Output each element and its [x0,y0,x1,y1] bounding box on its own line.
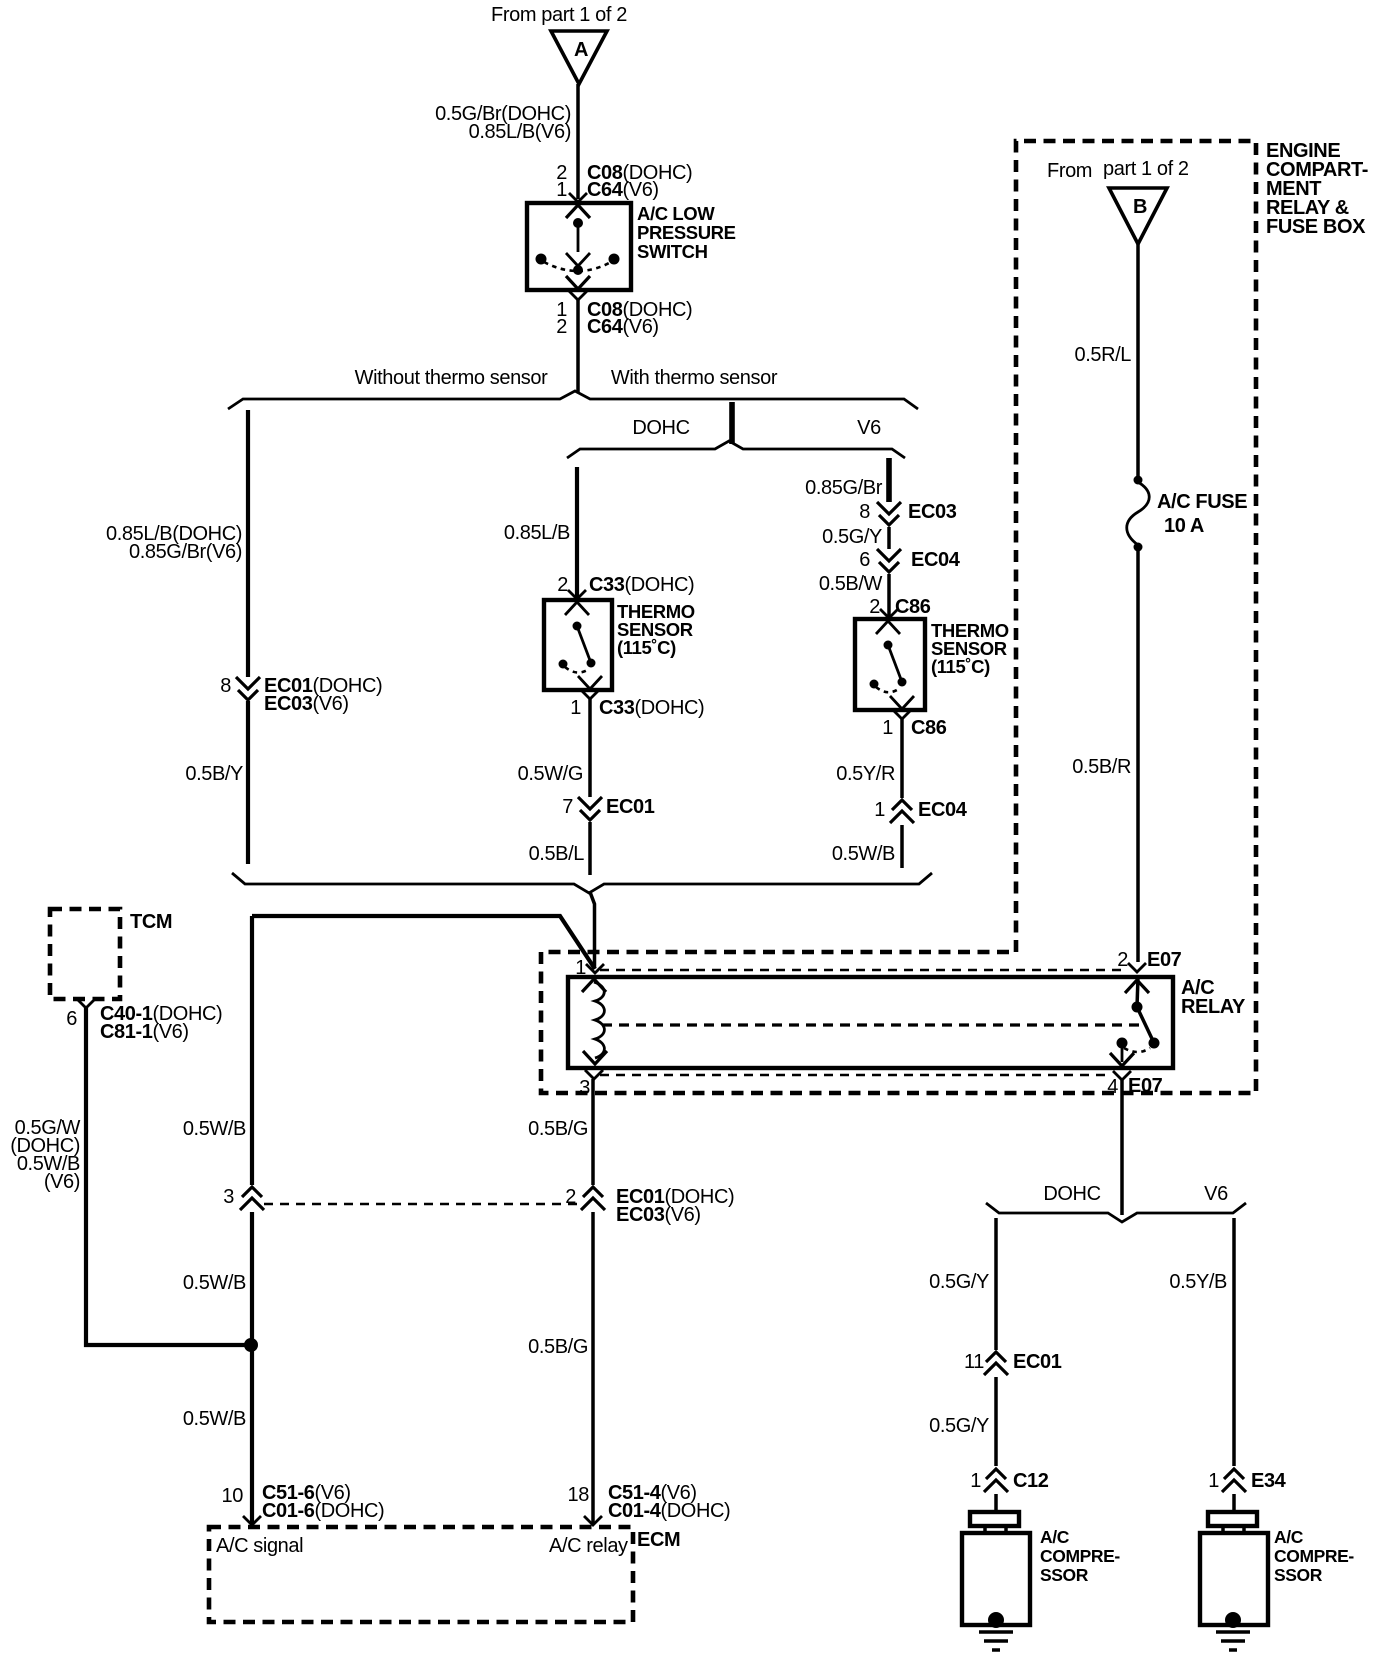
off-page connector A (triangle) [551,31,607,84]
connector C33 pin 1 (bottom of thermo sensor DOHC) [570,690,704,719]
svg-text:0.5Y/R: 0.5Y/R [836,763,895,785]
A/C low pressure switch internals [536,205,620,289]
brace: without/with thermo sensor split [228,391,918,409]
svg-text:EC04: EC04 [918,799,968,821]
svg-text:E07: E07 [1147,949,1182,971]
svg-text:0.85G/Br: 0.85G/Br [805,477,883,499]
wire: V6 compressor branch [1232,1218,1236,1466]
A/C relay inner dashed outline (bottom) [600,1074,1108,1077]
label: THERMO SENSOR (115C) DOHC [617,601,695,658]
wire: stem to DOHC/V6 brace [729,402,735,444]
svg-text:Without thermo sensor: Without thermo sensor [355,367,549,389]
wire: A/C signal vertical down to ECM pin 10 [250,916,254,1185]
svg-text:C01-6(DOHC): C01-6(DOHC) [262,1500,384,1522]
svg-text:C64(V6): C64(V6) [587,179,659,201]
A/C compressor DOHC symbol [962,1512,1030,1628]
ECM box (dashed) [209,1527,633,1622]
svg-text:(115˚C): (115˚C) [617,637,676,658]
connector EC04 pin 1 [874,799,967,823]
svg-text:C12: C12 [1013,1470,1049,1492]
wire: relay pin 3 down to ECM pin 18 [591,1079,595,1185]
connector C08/C64 pin 2/1 (top of pressure switch) [556,162,692,202]
A/C fuse 10A [1127,476,1247,552]
TCM box (dashed) [50,909,120,999]
relay pin 4 [1107,1071,1162,1098]
connector EC04 pin 6 [859,549,960,572]
ground (DOHC compressor) [979,1632,1013,1650]
svg-text:C64(V6): C64(V6) [587,316,659,338]
svg-text:0.85L/B(V6): 0.85L/B(V6) [469,121,571,143]
label: A/C RELAY [1181,977,1246,1018]
label: A/C COMPRESSOR (DOHC) [1040,1527,1120,1585]
wire: without-thermo-sensor left branch [246,410,250,677]
relay pin 3 (coil bottom) [579,1070,603,1099]
svg-text:part 1 of 2: part 1 of 2 [1103,158,1189,180]
svg-text:0.5R/L: 0.5R/L [1074,344,1131,366]
wire: fuse down to relay pin 2 [1136,547,1140,962]
svg-text:0.85G/Br(V6): 0.85G/Br(V6) [129,541,242,563]
svg-text:0.5W/B: 0.5W/B [183,1408,246,1430]
wire: connector B down to fuse [1136,244,1140,479]
dashed tie line between connector 3 and connector 2 [264,1203,580,1206]
svg-text:(V6): (V6) [44,1171,80,1193]
connector EC01/EC03 pin 2 (A/C relay wire) [565,1186,734,1226]
svg-text:SSOR: SSOR [1274,1565,1323,1585]
svg-text:EC03: EC03 [908,501,957,523]
relay coil [582,979,607,1064]
svg-text:COMPRE-: COMPRE- [1040,1546,1120,1566]
label: A/C COMPRESSOR (V6) [1274,1527,1354,1585]
svg-text:EC04: EC04 [911,549,961,571]
svg-text:0.5W/B: 0.5W/B [832,843,895,865]
wire: A/C signal branch (horizontal + diagonal to relay pin 1) [252,916,595,969]
connector EC01 pin 7 [562,796,654,820]
svg-text:V6: V6 [857,417,881,439]
thermo sensor (115 C) V6 box [855,619,925,710]
wire: thermo sensor V6 down to bottom brace [900,719,904,798]
connector C86 pin 1 (bottom of thermo sensor V6) [882,710,947,739]
svg-text:8: 8 [859,501,870,523]
svg-text:0.5B/G: 0.5B/G [528,1118,588,1140]
wire label 0.5G/W (DOHC) 0.5W/B (V6) [10,1117,80,1193]
svg-text:0.5B/W: 0.5B/W [819,573,883,595]
svg-text:6: 6 [66,1008,77,1030]
svg-text:0.5B/L: 0.5B/L [529,843,585,865]
svg-text:COMPRE-: COMPRE- [1274,1546,1354,1566]
svg-text:A/C signal: A/C signal [216,1535,303,1557]
label: ENGINE COMPARTMENT RELAY & FUSE BOX [1266,140,1368,238]
label: A/C LOW PRESSURE SWITCH [637,203,736,262]
svg-text:FUSE BOX: FUSE BOX [1266,216,1366,238]
svg-text:A/C relay: A/C relay [549,1535,628,1557]
ground (V6 compressor) [1216,1632,1250,1650]
svg-text:0.5B/R: 0.5B/R [1072,756,1131,778]
A/C relay mechanical link (dashed) [602,1023,1146,1026]
svg-text:C81-1(V6): C81-1(V6) [100,1021,189,1043]
svg-text:With thermo sensor: With thermo sensor [611,367,778,389]
svg-text:18: 18 [568,1484,590,1506]
svg-text:ECM: ECM [637,1529,680,1551]
svg-text:A/C FUSE: A/C FUSE [1157,491,1247,513]
wire: connector A down to A/C low pressure switch [576,84,580,199]
svg-text:PRESSURE: PRESSURE [637,222,736,243]
ENGINE COMPARTMENT RELAY & FUSE BOX (dashed outline) [541,141,1256,1093]
svg-text:EC01: EC01 [1013,1351,1062,1373]
svg-text:C86: C86 [911,717,947,739]
brace: merge of the three branches (bottom) [232,873,932,893]
svg-text:2: 2 [869,596,880,618]
connector E34 pin 1 [1208,1469,1286,1492]
svg-text:V6: V6 [1204,1183,1228,1205]
svg-text:E07: E07 [1128,1075,1163,1097]
svg-text:1: 1 [882,717,893,739]
wire: TCM down and right to junction [86,1008,251,1345]
brace: DOHC/V6 compressor split [986,1203,1246,1222]
connector C51-6/C01-6 pin 10 (ECM A/C signal) [222,1482,385,1525]
svg-text:1: 1 [970,1470,981,1492]
svg-text:0.5B/G: 0.5B/G [528,1336,588,1358]
A/C relay inner dashed outline (top) [600,969,1124,972]
A/C low pressure switch box [527,203,631,290]
wire: V6 thermo branch down to thermo sensor V6 [886,458,892,502]
svg-text:10 A: 10 A [1164,515,1204,537]
relay switch contacts [1110,977,1160,1066]
label: THERMO SENSOR (115C) V6 [931,620,1009,677]
svg-text:EC03(V6): EC03(V6) [264,693,349,715]
off-page connector B (triangle) [1109,188,1167,244]
svg-text:4: 4 [1107,1076,1118,1098]
svg-text:0.5G/Y: 0.5G/Y [929,1271,989,1293]
connector C33 pin 2 (top of thermo sensor DOHC) [557,574,694,599]
svg-text:6: 6 [859,549,870,571]
connector C08/C64 pin 1/2 (bottom of pressure switch) [556,291,692,338]
svg-text:1: 1 [575,957,586,979]
svg-text:SSOR: SSOR [1040,1565,1089,1585]
svg-text:1: 1 [570,697,581,719]
svg-text:TCM: TCM [130,911,172,933]
svg-text:C33(DOHC): C33(DOHC) [599,697,704,719]
svg-text:A/C LOW: A/C LOW [637,203,715,224]
svg-text:2: 2 [557,574,568,596]
junction node (TCM branch joins A/C signal wire) [244,1338,258,1352]
svg-text:DOHC: DOHC [1043,1183,1100,1205]
svg-text:EC03(V6): EC03(V6) [616,1204,701,1226]
svg-text:A/C: A/C [1040,1527,1070,1547]
svg-text:2: 2 [556,316,567,338]
brace: DOHC/V6 split (thermo sensor) [567,441,905,458]
svg-text:C01-4(DOHC): C01-4(DOHC) [608,1500,730,1522]
svg-text:C33(DOHC): C33(DOHC) [589,574,694,596]
svg-text:2: 2 [1117,949,1128,971]
svg-text:10: 10 [222,1485,244,1507]
svg-text:3: 3 [579,1077,590,1099]
svg-text:7: 7 [562,796,573,818]
svg-text:0.5Y/B: 0.5Y/B [1169,1271,1227,1293]
A/C relay box [568,977,1173,1068]
svg-text:From: From [1047,160,1092,182]
connector C86 pin 2 (top of thermo sensor V6) [869,596,931,618]
svg-text:(115˚C): (115˚C) [931,656,990,677]
svg-text:C86: C86 [895,596,931,618]
connector C51-4/C01-4 pin 18 (ECM A/C relay) [568,1482,731,1525]
svg-text:B: B [1133,196,1147,218]
connector pin 3 (A/C signal) [223,1186,264,1210]
svg-text:From part 1 of 2: From part 1 of 2 [491,4,627,26]
svg-text:A: A [574,39,588,61]
svg-text:8: 8 [220,675,231,697]
wire: brace merge down to relay pin 1 [590,892,595,968]
wire: pressure switch down to branch brace [576,300,580,392]
thermo sensor (115 C) DOHC box [544,600,612,690]
connector E07 pin 2 (relay) [1117,949,1181,993]
svg-text:DOHC: DOHC [632,417,689,439]
svg-text:1: 1 [1208,1470,1219,1492]
svg-text:3: 3 [223,1186,234,1208]
svg-text:0.85L/B: 0.85L/B [504,522,570,544]
wire: DOHC compressor branch [994,1218,998,1350]
connector EC01/EC03 pin 8 (left branch) [220,675,382,715]
connector C12 pin 1 [970,1469,1049,1492]
svg-text:0.5G/Y: 0.5G/Y [822,526,882,548]
connector EC03 pin 8 (V6 branch) [859,501,956,525]
thermo sensor DOHC internals [559,602,603,689]
connector C40-1/C81-1 pin 6 (TCM) [66,999,222,1043]
svg-text:A/C: A/C [1274,1527,1304,1547]
connector EC01 pin 11 [964,1351,1062,1375]
svg-text:0.5G/Y: 0.5G/Y [929,1415,989,1437]
svg-text:0.5B/Y: 0.5B/Y [185,763,243,785]
svg-text:11: 11 [964,1351,984,1373]
svg-text:0.5W/B: 0.5W/B [183,1118,246,1140]
svg-text:2: 2 [565,1186,576,1208]
svg-text:1: 1 [556,179,567,201]
svg-text:0.5W/B: 0.5W/B [183,1272,246,1294]
relay pin 1 (coil top) [575,957,604,979]
svg-text:SWITCH: SWITCH [637,241,708,262]
wire: thermo sensor DOHC down to bottom brace [588,699,592,797]
wire: relay pin 4 down to compressor brace [1120,1080,1124,1215]
svg-text:RELAY: RELAY [1181,996,1246,1018]
svg-text:EC01: EC01 [606,796,655,818]
svg-text:E34: E34 [1251,1470,1287,1492]
svg-text:1: 1 [874,799,885,821]
A/C compressor V6 symbol [1200,1512,1268,1628]
svg-text:0.5W/G: 0.5W/G [518,763,583,785]
thermo sensor V6 internals [870,621,915,709]
wire: DOHC thermo branch down to thermo sensor [575,467,579,597]
